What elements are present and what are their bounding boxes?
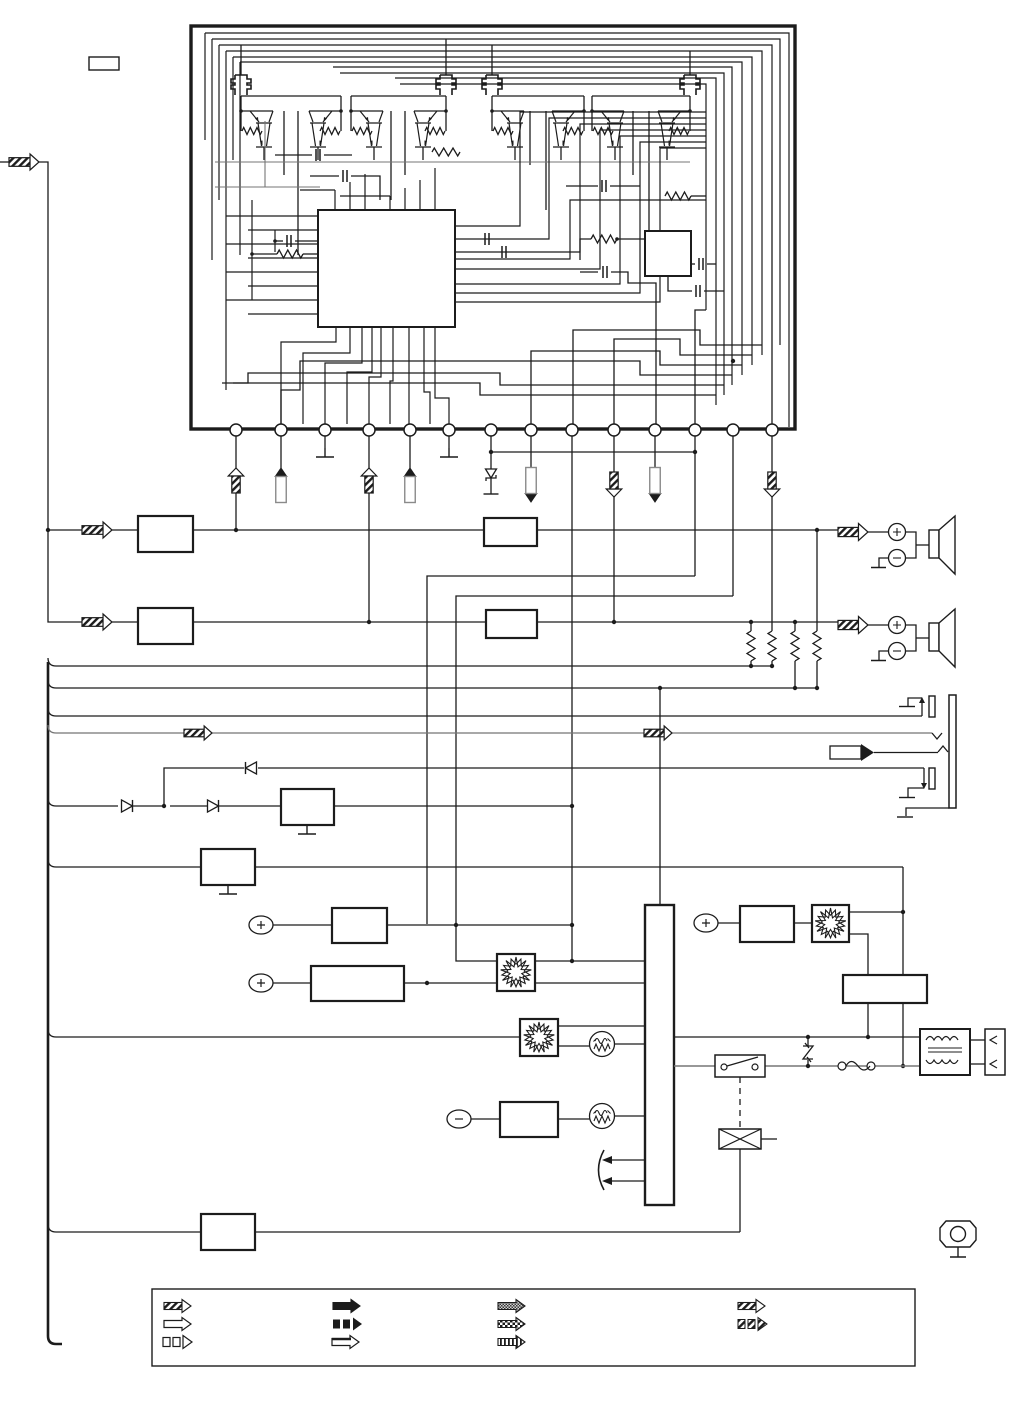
wire core top [349,182,351,210]
bus branch to load r1 r2 [48,658,772,666]
system control block [645,905,674,1205]
speaker L output [838,527,858,536]
signal arrow mid2 [644,729,664,737]
pin5 lead [409,436,411,468]
legend arrow striped [498,1336,525,1349]
wire [351,176,380,200]
junction [693,450,697,454]
supply plus 2 [249,974,273,992]
contact bar [897,816,913,818]
transistor pair Q8 [658,111,690,147]
wire to pin2 [281,361,732,424]
wire [794,922,812,924]
wire [906,532,917,558]
pin3 lead [324,436,326,448]
arrow up solid pin2 [275,468,287,477]
jack bottom contact [923,768,925,786]
arrow shaft [610,472,618,489]
contact bar [899,706,915,708]
bus branch to load r3 r4 [48,680,817,688]
arrow head [361,468,377,476]
wire [902,1003,904,1066]
wire collector drop [390,111,392,200]
wire [303,253,318,255]
bus branch to block [48,859,201,867]
junction [901,910,905,914]
speaker plus terminal [889,524,906,541]
wire collector drop [632,111,634,175]
wire transformer to plug [970,1039,985,1041]
wire [491,45,493,60]
wire [0,161,9,163]
pin14 lead [771,436,773,630]
speaker [929,530,939,558]
wire [255,1231,740,1233]
junction [815,528,819,532]
signal arrow row2 [82,618,103,627]
wire [916,544,929,546]
diode D1 [122,800,133,812]
load resistor r3 [791,631,799,661]
wire to pin10 [614,339,752,424]
jack spring contact 2 [938,746,948,752]
junction r3 [793,620,797,624]
wire [612,1159,645,1161]
arrow up solid pin5 [404,468,416,477]
junction pin12 line [425,981,429,985]
transistor cluster rail 2 [351,95,446,97]
wire [771,630,773,631]
wire [535,982,645,984]
pin [649,424,661,436]
arrow head [606,489,622,497]
wire into motor driver [456,925,497,961]
junction [806,1035,810,1039]
wire [471,1118,500,1120]
junction r1 [749,620,753,624]
note box [89,57,119,70]
pin7 lead [490,436,492,469]
wire [558,1025,645,1027]
wire [707,263,716,265]
capacitor [502,246,506,258]
arrow shaft [232,476,240,493]
wire [750,661,752,666]
wire filter top lead [445,60,447,75]
wire pin14 riser [771,150,773,424]
pin1 lead [235,436,237,530]
diode D2 [208,800,219,812]
wire [112,529,138,531]
pin [525,424,537,436]
input signal arrow [9,158,30,167]
pin12 lead [694,436,696,576]
legend arrow open top [332,1336,359,1349]
relay coil [719,1129,761,1149]
wire [691,195,706,197]
speaker [929,623,939,651]
wire [617,238,645,240]
wire core to pin [369,327,381,424]
legend box [152,1289,915,1366]
pin6 lead [448,436,450,448]
wire [566,185,598,187]
wire filter top lead [240,60,242,75]
transistor pair Q7 [592,111,624,147]
wire [816,530,818,631]
lamp 1 [590,1032,615,1057]
preamp block R [138,608,193,644]
pin [319,424,331,436]
chassis ground [879,558,889,567]
junction pin9 line [570,804,574,808]
wire into core [248,285,318,287]
wire loop [395,78,716,405]
wire to pin12 [695,310,706,424]
wire core right [455,124,706,252]
signal arrow row1 [82,526,103,535]
wire core top [334,190,336,210]
supply plus 1 [249,916,273,934]
ground pin7 [484,493,499,495]
wire [240,45,242,60]
contact bar [899,797,915,799]
wire core to pin [281,327,336,424]
wire core right [455,130,706,269]
wire [404,982,497,984]
pin [275,424,287,436]
wire [300,189,335,191]
ceramic filter at 690 [680,75,700,95]
resistor [277,250,303,258]
jack spring contact [932,733,942,739]
legend arrow open [164,1318,191,1331]
regulator block [281,789,334,825]
internal grey bus 2 [215,186,320,188]
wire staircase [233,383,716,395]
load resistor r4 [813,631,821,661]
wire [170,805,207,807]
pin [689,424,701,436]
transistor cluster rail 3 [492,95,584,97]
wire core top [404,188,406,210]
bus branch to jack mid grey [48,725,932,733]
motor M2 [520,1019,558,1056]
junction [866,1035,870,1039]
wire [273,924,332,926]
wire core to pin [347,327,372,424]
wire [275,240,283,242]
transistor pair Q6 [552,111,584,147]
wire loop [333,67,732,385]
wire loop [226,51,762,355]
load resistor r2 [768,631,776,661]
capacitor [602,180,606,192]
wire [691,263,695,265]
wire core top [364,174,366,210]
bus branch to jack top [48,708,922,716]
wire filter top lead [689,60,691,75]
wire collector drop [297,111,299,255]
arrow down solid pin8 [525,494,537,503]
transformer [920,1029,970,1075]
wire to pin9 [573,330,762,424]
transistor pair Q1 [241,111,273,147]
block D [740,906,794,942]
wire [225,51,227,390]
pin8 lead [530,436,532,468]
wire into core [226,215,318,217]
junction [46,528,50,532]
wire core to pin [390,327,393,424]
junction [570,959,574,963]
wire into core [248,257,318,259]
wire to pin8 [531,351,742,424]
ground pin3 [316,448,334,457]
wire [908,698,922,706]
signal arrow mid [184,729,204,737]
legend arrow hatched [164,1303,182,1310]
arrow shaft [768,472,776,489]
wire core top [389,196,391,210]
wire up to D3 [164,768,244,806]
wire [874,752,938,754]
wire pin7 to pin12 [491,451,695,453]
speaker minus terminal [889,643,906,660]
pin13 lead [732,436,734,596]
wire collector drop [648,111,650,230]
pin [766,424,778,436]
arrow head [228,468,244,476]
ground [298,825,316,834]
wire [251,200,253,300]
capacitor [485,233,489,245]
wire [48,529,82,531]
wire [849,911,903,913]
pin4 lead [368,436,370,622]
zener Z [807,1037,809,1046]
ground [219,885,237,894]
filter block L [484,518,537,546]
grey vertical [264,121,266,187]
IC power amplifier hybrid module [191,26,795,429]
legend arrow dashed open [163,1338,170,1347]
wire [275,154,312,156]
wire stub [761,1138,777,1140]
wire [295,240,318,242]
timer block [201,1214,255,1250]
block A [332,908,387,943]
jack sleeve ground [906,808,949,816]
wire [615,1043,645,1045]
wire [867,1003,869,1037]
wire [274,230,276,252]
wire into core [248,313,318,315]
wire [750,622,752,631]
bus branch to motor [48,1029,520,1037]
speaker plus terminal [889,617,906,634]
pin [566,424,578,436]
transistor pair Q5 [492,111,524,147]
legend arrow hatched 2 [738,1303,756,1310]
wire [445,39,447,60]
wire loop [212,39,780,345]
wire core top [419,180,421,210]
load resistor r1 [747,631,755,661]
transistor cluster rail 1 [241,95,341,97]
wire [537,621,838,623]
junction [806,1064,810,1068]
transistor cluster rail 4 [592,95,690,97]
supply minus [447,1110,471,1128]
junction pin10 [612,620,616,624]
resistor [591,235,617,243]
block C [500,1102,558,1137]
wire [906,625,917,651]
IC sub block [645,231,691,276]
resistor [665,192,691,200]
junction [162,804,166,808]
wire collector drop [529,111,531,165]
wire loop [233,57,752,365]
wire [112,621,138,623]
internal grey bus 1 [215,161,690,163]
wire staircase [222,373,724,385]
wire core to pin [325,327,362,424]
wire [218,45,220,200]
wire input feed [39,162,82,622]
wire [193,621,486,623]
pin [230,424,242,436]
wire loop [205,33,789,427]
wire pin12 reroute [427,576,695,924]
wire loop [340,73,724,395]
jack tip contact top [921,700,923,716]
wire into core [226,299,318,301]
wire [580,271,598,273]
junction [489,450,493,454]
wire [239,62,241,255]
preamp block L [138,516,193,552]
wire [490,478,492,494]
plug symbol [830,746,861,759]
wire [689,51,691,60]
wire core right [455,200,706,259]
wire [610,185,640,187]
junction [731,359,735,363]
rotation arc [599,1150,605,1190]
ceramic filter at 492 [482,75,502,95]
wire [794,661,796,688]
wire [704,290,724,292]
filter block R [486,610,537,638]
wire [340,195,390,197]
capacitor [316,149,320,161]
transistor pair Q4 [414,111,446,147]
pin [404,424,416,436]
pin [443,424,455,436]
wire [219,805,281,807]
wire core top [434,168,436,210]
speaker R output [838,620,858,629]
wire into core [226,271,318,273]
wire sub block to pin11 [611,272,656,424]
wire [771,661,773,666]
zener diode pin7 [486,469,497,478]
wire loop [219,45,772,150]
relay coil dashed link [739,1077,741,1129]
legend arrow dashed solid [333,1320,340,1329]
wire loop [400,84,706,310]
arrow down solid pin11 [649,494,661,503]
arrow shaft [365,476,373,493]
pin2 lead [280,436,282,468]
wire [204,33,206,140]
wire [580,239,591,260]
pin9 lead [571,436,573,961]
legend arrow solid [333,1300,360,1313]
capacitor [699,258,703,270]
pin [608,424,620,436]
wire core right [455,112,706,226]
wire [324,154,352,156]
wire core to pin [424,327,430,424]
wire into core [248,229,318,231]
power line bottom grey [674,1065,715,1067]
wire filter top lead [491,60,493,75]
mute block [201,849,255,885]
wire [668,276,692,291]
capacitor [696,285,700,297]
wire [718,922,740,924]
arrow head [764,489,780,497]
transistor pair Q3 [351,111,383,147]
wire to servo block top [659,688,661,905]
wire [908,788,924,797]
motor M3 [812,905,849,942]
fuse [838,1062,846,1070]
legend arrow dotted [498,1300,525,1313]
wire core right [455,136,706,284]
junction [901,1064,905,1068]
supply plus 3 [694,914,718,932]
wire [535,960,645,962]
junction pin1 [234,528,238,532]
diode D3 [246,762,257,774]
wire [916,637,929,639]
pin11 lead [654,436,656,468]
wire core to pin [435,327,449,424]
wire [310,175,339,177]
wire collector drop [404,111,406,175]
motor M1 [497,954,535,991]
wire [232,57,234,160]
transistor pair Q2 [309,111,341,147]
wire to jack bottom [258,767,924,769]
optical indicator [940,1221,976,1247]
wire core to pin [408,327,410,424]
capacitor [603,266,607,278]
wire [558,1045,590,1047]
pin10 lead [613,436,615,622]
power switch box [715,1055,765,1077]
bus branch diode line [48,798,118,806]
wire core right [455,142,706,293]
wire core to pin [303,327,350,424]
wire collector drop [545,111,547,210]
junction pin13 line [454,923,458,927]
wire [615,1115,645,1117]
